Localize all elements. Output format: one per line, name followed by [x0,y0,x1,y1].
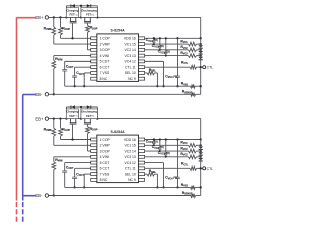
transistor discharging FET [81,8,98,26]
junction [153,144,155,146]
svg-text:5 CDT: 5 CDT [100,161,110,165]
junction [153,138,155,140]
junction [153,43,155,45]
svg-text:EB-: EB- [35,92,43,97]
wire diode bypass top [67,106,98,108]
wire pack + lead (red) [17,17,36,19]
junction [165,156,167,158]
junction [176,138,178,140]
svg-text:RVMP: RVMP [44,128,52,133]
svg-text:4 VINI: 4 VINI [100,155,109,159]
pin 12 VC4 [139,161,145,164]
svg-text:CCDT: CCDT [66,166,74,171]
node CTL terminal [203,66,206,69]
svg-text:CCCT: CCCT [76,71,84,76]
resistor R_VC3 [145,55,189,57]
junction [200,156,202,158]
pin 2 VMP [91,144,97,147]
svg-text:VC1 15: VC1 15 [124,144,135,148]
svg-text:SEL 10: SEL 10 [125,172,136,176]
junction [200,186,202,188]
pin 4 VINI [91,54,97,57]
battery cell 2 [198,152,203,155]
junction [200,150,202,152]
wire to pin1 COP [61,37,91,39]
svg-text:S-8254A: S-8254A [110,130,125,134]
resistor R_VC1 [145,43,189,45]
svg-text:NC 9: NC 9 [128,77,136,81]
wire to pin1 COP [61,139,91,141]
wire diode loop right [96,6,98,18]
svg-text:CVC3 (*2): CVC3 (*2) [158,151,170,156]
wire VDD row [145,139,201,141]
pin 15 VC1 [139,43,145,46]
svg-text:2 VMP: 2 VMP [100,144,111,148]
svg-text:8 NC: 8 NC [100,77,108,81]
junction [53,117,55,119]
body diode D1 [71,105,75,108]
wire pack - lead continuation (blue, dashed) [22,202,24,223]
wire block1 EB- lead (blue) [23,94,36,96]
body diode D2 [87,105,91,108]
junction [200,167,202,169]
capacitor C_VC2 [159,140,161,148]
svg-text:CVC1 (*2): CVC1 (*2) [146,38,158,43]
junction [73,85,75,87]
svg-text:7 VSS: 7 VSS [100,71,110,75]
svg-text:RCTL: RCTL [181,60,189,65]
junction [159,138,161,140]
svg-text:RCTL: RCTL [181,162,189,167]
resistor R_VC2 [145,49,189,51]
wire to pin3 DOP [88,150,91,152]
junction [200,144,202,146]
junction [153,37,155,39]
capacitor C_VC1 [153,38,155,41]
junction [65,16,67,18]
pin 6 CCT [91,66,97,69]
svg-text:VC2 14: VC2 14 [124,48,135,52]
svg-text:VC2 14: VC2 14 [124,149,135,153]
node EB- terminal [45,194,48,197]
wire to pin3 DOP [88,49,91,51]
svg-text:5 CDT: 5 CDT [100,60,110,64]
junction [59,117,61,119]
svg-text:3 DOP: 3 DOP [100,149,111,153]
wire VSS to bus [84,72,91,74]
pin 10 SEL [139,173,145,176]
svg-text:Charging: Charging [66,8,78,12]
resistor R_SENSE [191,92,196,96]
svg-text:RVSS: RVSS [181,82,189,87]
resistor R_SENSE [191,194,196,198]
pin 14 VC2 [139,150,145,153]
pin 12 VC4 [139,60,145,63]
battery cell 3 [198,158,203,161]
junction [65,117,67,119]
resistor R_VC2 [145,150,189,152]
junction [200,54,202,56]
svg-text:RSEL: RSEL [149,169,157,174]
pin 7 VSS [91,71,97,74]
junction [96,117,98,119]
junction [80,5,82,7]
svg-text:Discharging: Discharging [81,110,97,114]
battery cell 1 [198,146,203,149]
junction VINI/EB- [53,93,55,95]
pin 15 VC1 [139,144,145,147]
battery cell 1 [198,45,203,48]
pin 3 DOP [91,150,97,153]
capacitor C_VC3 [165,140,167,154]
svg-text:RVC1: RVC1 [180,141,188,146]
svg-text:VDD 16: VDD 16 [124,37,136,41]
node CTL terminal [203,167,206,170]
svg-text:CVC3 (*2): CVC3 (*2) [158,50,170,55]
pin 16 VDD [139,37,145,40]
wire pin4 VINI [54,156,91,158]
svg-text:CVC2 (*2): CVC2 (*2) [152,44,164,49]
svg-text:CTL 11: CTL 11 [125,167,136,171]
pin 5 CDT [91,60,97,63]
wire chain bottom [200,56,202,95]
IC U1 S-8254A [91,29,145,82]
wire EB+ rail [49,16,201,18]
wire pin5 CDT [65,60,91,62]
junction [80,16,82,18]
svg-text:CCDT: CCDT [66,64,74,69]
svg-text:VC1 15: VC1 15 [124,42,135,46]
wire diode loop left [66,107,68,119]
junction [53,16,55,18]
wire pin5 CDT [65,162,91,164]
svg-text:7 VSS: 7 VSS [100,172,110,176]
node EB+ terminal [45,117,48,120]
svg-text:CCCT: CCCT [76,172,84,177]
pin 9 NC [139,178,145,181]
wire diode loop mid [80,6,82,18]
resistor R_DOP [86,127,90,134]
svg-text:VDD 16: VDD 16 [124,138,136,142]
svg-text:RVINI: RVINI [55,158,63,163]
svg-text:CTL: CTL [207,167,214,171]
junction [153,138,155,140]
svg-text:VC4 12: VC4 12 [124,60,135,64]
junction [200,66,202,68]
junction [200,85,202,87]
junction [73,186,75,188]
capacitor C_VC4 [177,38,179,76]
junction [176,37,178,39]
svg-text:CTL 11: CTL 11 [125,65,136,69]
wire pin6 CCT [75,66,91,68]
wire EB- line [49,93,191,95]
IC U2 S-8254A [91,130,145,183]
wire block2 EB- branch (blue) [23,195,36,197]
wire chain bottom [200,157,202,196]
junction [83,85,85,87]
battery cell 2 [198,51,203,54]
wire VSS bus [65,186,191,188]
svg-text:CTL: CTL [207,66,214,70]
svg-text:RVC3: RVC3 [180,51,188,56]
wire VDD row [145,37,201,39]
resistor R_VC1 [145,144,189,146]
svg-text:RVC2: RVC2 [180,45,188,50]
svg-text:VC3 13: VC3 13 [124,54,135,58]
pin 2 VMP [91,43,97,46]
junction [80,117,82,119]
junction [200,138,202,140]
svg-text:(*1): (*1) [75,15,78,17]
junction gate1/COP [71,37,73,39]
wire rail drop to VDD node [200,17,202,38]
wire pack + lead continuation (red, dashed) [16,202,18,223]
svg-text:S-8254A: S-8254A [110,29,125,33]
wire EB+ rail [49,118,201,120]
svg-text:(*1): (*1) [91,116,94,118]
svg-text:1 COP: 1 COP [100,138,111,142]
junction [159,37,161,39]
junction gate1/COP [71,138,73,140]
svg-text:EB+: EB+ [35,116,44,121]
pin 13 VC3 [139,54,145,57]
pin 7 VSS [91,173,97,176]
svg-text:RSENSE: RSENSE [182,191,193,196]
svg-text:Charging: Charging [66,110,78,114]
wire diode loop left [66,6,68,18]
node EB+ terminal [45,16,48,19]
resistor R_CTL [145,167,190,169]
svg-text:EB-: EB- [35,193,43,198]
junction [59,16,61,18]
junction [200,49,202,51]
resistor R_SEL [145,173,147,175]
junction [176,85,178,87]
svg-text:6 CCT: 6 CCT [100,167,110,171]
pin 8 NC [91,178,97,181]
junction [153,37,155,39]
resistor R_DOP [86,25,90,32]
svg-text:RDOP: RDOP [90,26,98,31]
pin 16 VDD [139,138,145,141]
svg-text:RSEL: RSEL [149,68,157,73]
junction [165,55,167,57]
pin 11 CTL [139,167,145,170]
wire rail drop to VDD node [200,119,202,140]
wire pin6 CCT [75,167,91,169]
junction [162,186,164,188]
resistor R_VC3 [145,156,189,158]
wire VC4 to bus [145,162,164,164]
svg-text:(*1): (*1) [75,116,78,118]
junction [200,43,202,45]
svg-text:CVC2 (*2): CVC2 (*2) [152,145,164,150]
battery cell 3 [198,57,203,60]
node EB- terminal [45,93,48,96]
svg-text:RVMP: RVMP [44,26,52,31]
pin 5 CDT [91,161,97,164]
junction [159,49,161,51]
junction [165,37,167,39]
capacitor C_VC1 [153,140,155,143]
svg-text:CVC4 (*2): CVC4 (*2) [165,176,177,181]
transistor charging FET [66,109,78,140]
svg-text:RDOP: RDOP [90,127,98,132]
junction [176,186,178,188]
pin 1 COP [91,37,97,40]
svg-text:NC 9: NC 9 [128,178,136,182]
wire diode loop mid [80,107,82,119]
junction [162,85,164,87]
svg-text:8 NC: 8 NC [100,178,108,182]
pin 3 DOP [91,48,97,51]
svg-text:Discharging: Discharging [81,8,97,12]
wire VSS bus [65,85,191,87]
svg-text:RVC1: RVC1 [180,39,188,44]
wire diode loop right [96,107,98,119]
svg-text:RVINI: RVINI [55,57,63,62]
pin 13 VC3 [139,155,145,158]
svg-text:VC4 12: VC4 12 [124,161,135,165]
resistor R_VSS [191,84,196,88]
wire diode bypass top [67,5,98,7]
pin 4 VINI [91,155,97,158]
junction [156,186,158,188]
junction [159,150,161,152]
wire pin4 VINI [54,55,91,57]
svg-text:RVSS: RVSS [181,183,189,188]
wire EB- line [49,195,191,197]
capacitor C_VC4 [177,140,179,178]
svg-text:RCOP: RCOP [62,128,70,133]
svg-text:RVC3: RVC3 [180,152,188,157]
body diode D1 [71,4,75,7]
transistor charging FET [66,8,78,39]
junction [156,85,158,87]
junction [165,138,167,140]
junction [96,16,98,18]
pin 10 SEL [139,71,145,74]
wire to pin2 VMP [54,144,91,146]
pin 11 CTL [139,66,145,69]
svg-text:1 COP: 1 COP [100,37,111,41]
transistor discharging FET [81,109,98,127]
svg-text:VC3 13: VC3 13 [124,155,135,159]
svg-text:6 CCT: 6 CCT [100,65,110,69]
pin 9 NC [139,77,145,80]
svg-text:CVC4 (*2): CVC4 (*2) [165,75,177,80]
wire to pin2 VMP [54,43,91,45]
svg-text:SEL 10: SEL 10 [125,71,136,75]
pin 1 COP [91,138,97,141]
junction VINI/EB- [53,194,55,196]
resistor R_CTL [145,66,190,68]
junction [200,37,202,39]
svg-text:3 DOP: 3 DOP [100,48,111,52]
svg-text:2 VMP: 2 VMP [100,42,111,46]
svg-text:4 VINI: 4 VINI [100,54,109,58]
pin 14 VC2 [139,48,145,51]
pin 6 CCT [91,167,97,170]
junction [80,106,82,108]
junction [83,186,85,188]
capacitor C_VC2 [159,38,161,46]
body diode D2 [87,4,91,7]
wire VSS to bus [84,173,91,175]
svg-text:RVC2: RVC2 [180,146,188,151]
capacitor C_VC3 [165,38,167,52]
resistor R_SEL [145,72,147,74]
svg-text:(*1): (*1) [91,15,94,17]
wire VC4 to bus [145,60,164,62]
svg-text:RCOP: RCOP [62,26,70,31]
resistor R_VSS [191,186,196,190]
svg-text:EB+: EB+ [35,15,44,20]
svg-text:RSENSE: RSENSE [182,90,193,95]
pin 8 NC [91,77,97,80]
svg-text:CVC1 (*2): CVC1 (*2) [146,139,158,144]
